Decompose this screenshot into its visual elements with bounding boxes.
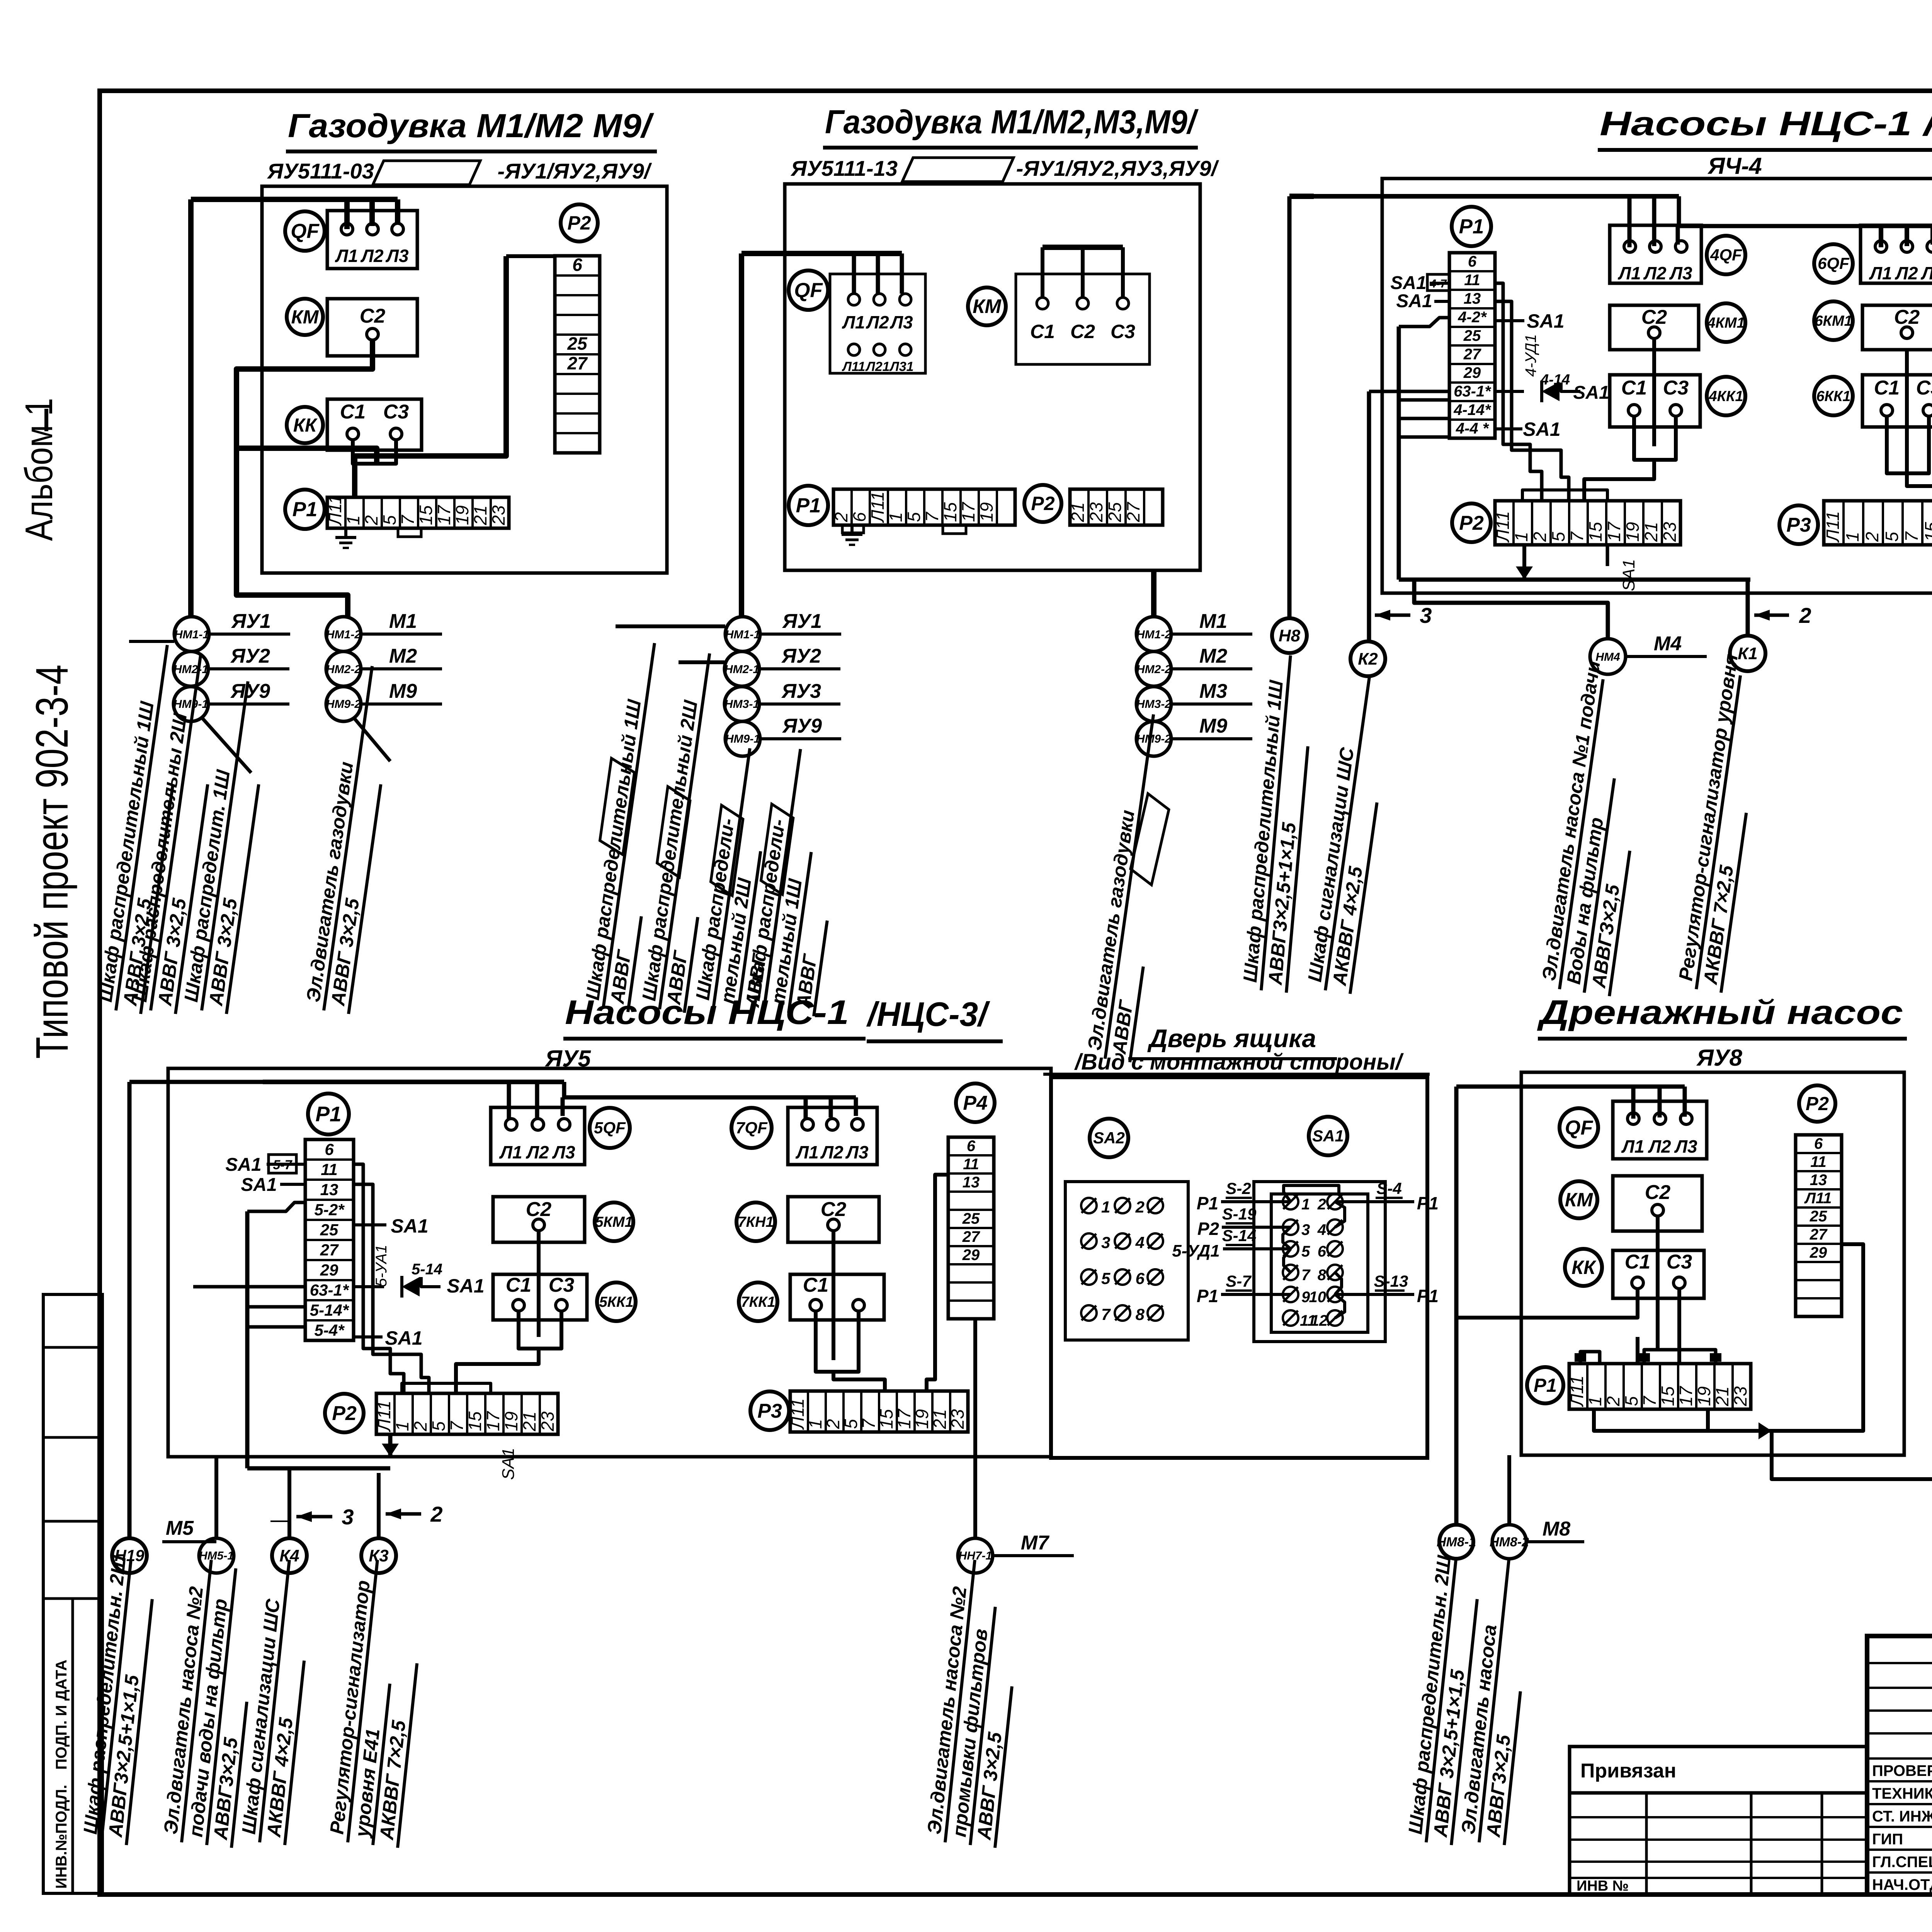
svg-text:6QF: 6QF <box>1818 254 1850 273</box>
svg-text:C2: C2 <box>526 1198 552 1221</box>
wire 7QF feed (E) <box>806 1097 856 1119</box>
svg-text:17: 17 <box>483 1411 503 1431</box>
svg-text:C2: C2 <box>1641 306 1667 328</box>
motor circle НМ9-2 (A) <box>326 680 442 721</box>
svg-text:Л3: Л3 <box>1669 263 1692 283</box>
relay Р2 circle (C) <box>1452 503 1491 542</box>
terminal strip Р1 (C) <box>1449 253 1495 438</box>
svg-text:Типовой проект 902-3-4: Типовой проект 902-3-4 <box>27 665 78 1059</box>
svg-text:НМ1-1: НМ1-1 <box>174 628 209 641</box>
svg-text:М5: М5 <box>166 1517 194 1539</box>
svg-text:НМ3-1: НМ3-1 <box>724 698 759 711</box>
svg-text:SA1: SA1 <box>225 1155 261 1175</box>
terminal strip Р1 (G) <box>1567 1364 1751 1409</box>
thermal relay КК (G) <box>1565 1249 1602 1286</box>
svg-text:Л11: Л11 <box>1567 1376 1587 1407</box>
wire Н8 drop <box>1289 196 1314 618</box>
motor circle НМ9-2 (B) <box>1136 715 1252 756</box>
svg-text:ЯУ8: ЯУ8 <box>1696 1045 1742 1071</box>
svg-text:Насосы НЦС-1: Насосы НЦС-1 <box>565 993 849 1031</box>
svg-text:C2: C2 <box>821 1198 847 1221</box>
svg-text:Л2: Л2 <box>820 1142 844 1162</box>
cable label Регулятор-сигнализатор уровня Е41 (К3) <box>325 1558 417 1848</box>
wire К1 drop (C) <box>1746 580 1750 636</box>
svg-text:ЯЧ-4: ЯЧ-4 <box>1707 153 1762 179</box>
svg-text:SA1: SA1 <box>447 1275 484 1297</box>
cabinet circle НМ1-1 (B) <box>725 610 841 651</box>
block G subtitle ЯУ8 <box>1696 1045 1742 1071</box>
wire C2 down (A) <box>236 340 372 617</box>
box ЯУ (block B) <box>785 184 1200 570</box>
svg-text:5: 5 <box>904 512 924 522</box>
svg-text:Л2: Л2 <box>360 246 384 266</box>
cable label Эл.двигатель насоса №1 подачи (НМ4) <box>1537 659 1630 996</box>
svg-text:5: 5 <box>1621 1396 1641 1406</box>
svg-text:Р1: Р1 <box>1197 1193 1218 1213</box>
svg-text:S-2: S-2 <box>1226 1179 1251 1197</box>
svg-text:1: 1 <box>1842 532 1862 542</box>
svg-text:1: 1 <box>1101 1198 1110 1216</box>
relay Р1 circle (B) <box>789 486 828 525</box>
svg-text:3: 3 <box>342 1505 354 1529</box>
door F title <box>1043 1024 1430 1075</box>
svg-text:НМ1-2: НМ1-2 <box>326 628 361 641</box>
svg-text:4-УД1: 4-УД1 <box>1522 334 1539 377</box>
relay Р2 circle (G) <box>1799 1085 1835 1122</box>
cable label Шкаф распределительн 2Ш (Н19) <box>78 1554 152 1845</box>
left bus (E) <box>247 1211 305 1468</box>
svg-text:Л1: Л1 <box>1869 263 1892 283</box>
svg-text:27: 27 <box>320 1241 339 1259</box>
box ЯУ8 <box>1521 1072 1904 1455</box>
wire into box left (B) <box>739 253 744 617</box>
svg-text:11: 11 <box>963 1156 979 1173</box>
svg-text:ГИП: ГИП <box>1872 1831 1903 1848</box>
svg-text:ЯУ9: ЯУ9 <box>782 715 822 737</box>
bottom bus (E) <box>247 1466 390 1471</box>
box ЯУ (block A) <box>262 186 667 573</box>
svg-text:C2: C2 <box>1894 306 1920 328</box>
svg-text:8: 8 <box>1136 1305 1145 1323</box>
svg-text:29: 29 <box>962 1247 980 1264</box>
terminal strip Р2 (C) <box>1493 501 1680 545</box>
SA1 wire 5-УД1 S-14 (F) <box>1172 1226 1291 1260</box>
cable label Эл.двигатель насоса №2 подачи (НМ5) <box>159 1558 247 1848</box>
label SA1 to 13 (C) <box>1396 291 1449 311</box>
svg-text:Р1: Р1 <box>1417 1286 1439 1306</box>
svg-text:SA1: SA1 <box>1390 273 1426 293</box>
wire Р1 strip to Р2 strip (A) <box>355 256 506 497</box>
diode 4-14 (C) <box>1495 372 1609 403</box>
svg-text:SA1: SA1 <box>385 1327 422 1349</box>
svg-text:Р1: Р1 <box>1459 215 1484 238</box>
svg-text:C1: C1 <box>803 1274 828 1296</box>
svg-text:ЯУ5111-03: ЯУ5111-03 <box>267 159 374 183</box>
svg-text:2: 2 <box>430 1502 442 1526</box>
wire Р4 to Р3 (E) <box>927 1175 948 1391</box>
svg-text:21: 21 <box>1712 1386 1732 1406</box>
svg-text:ЯУ1: ЯУ1 <box>782 610 822 633</box>
svg-text:12: 12 <box>1311 1312 1328 1329</box>
svg-text:С1: С1 <box>1030 321 1055 342</box>
svg-text:SA1: SA1 <box>1396 291 1432 311</box>
svg-text:ПОДП. И ДАТА: ПОДП. И ДАТА <box>53 1660 70 1770</box>
svg-text:Л2: Л2 <box>866 312 889 332</box>
svg-text:Дверь ящика: Дверь ящика <box>1147 1024 1316 1053</box>
label 4-УД1 rotated (C) <box>1522 334 1539 377</box>
svg-text:15: 15 <box>940 502 960 522</box>
QF terminals Л1Л2Л3 (G) <box>1613 1101 1707 1159</box>
svg-text:7: 7 <box>922 512 942 522</box>
svg-text:4QF: 4QF <box>1710 246 1742 264</box>
contactor coil C2 7КН1 <box>788 1197 879 1242</box>
contactor КМ (B) <box>968 287 1006 325</box>
svg-text:1: 1 <box>1585 1396 1605 1406</box>
svg-text:7: 7 <box>1901 531 1922 542</box>
SA1 wire Р2 S-19 (F) <box>1197 1205 1291 1239</box>
svg-text:Газодувка М1/М2,М3,М9/: Газодувка М1/М2,М3,М9/ <box>825 104 1199 141</box>
relay Р1 circle (C) <box>1452 207 1491 246</box>
svg-text:5-УД1: 5-УД1 <box>1172 1242 1220 1260</box>
terminal strip Р1 (B) <box>831 489 1015 525</box>
svg-text:29: 29 <box>1810 1244 1827 1261</box>
svg-text:7КК1: 7КК1 <box>741 1294 776 1310</box>
contactor coil C2 5КМ1 <box>493 1197 585 1242</box>
svg-text:29: 29 <box>1463 364 1481 381</box>
svg-text:SA1: SA1 <box>1312 1127 1344 1145</box>
wire QF feed (B) <box>742 253 902 294</box>
jumper over Р2 strip (E) <box>402 1383 491 1393</box>
relay Р2 circle (E) <box>325 1394 364 1432</box>
contactor 7КН1 <box>736 1202 775 1241</box>
block C title <box>1598 104 1932 150</box>
svg-text:QF: QF <box>1565 1117 1593 1139</box>
bracket under Р1 strip cell 7 (A) <box>398 528 421 537</box>
svg-text:4: 4 <box>1135 1233 1145 1252</box>
wire stub НМ1-1 (B) <box>616 624 725 628</box>
svg-text:КК: КК <box>293 415 318 436</box>
motor circle НМ2-2 (B) <box>1136 645 1252 686</box>
thermal contacts C1 7КК1 <box>790 1274 884 1320</box>
svg-text:1: 1 <box>1511 532 1531 542</box>
svg-text:НМ8-1: НМ8-1 <box>1437 1535 1476 1549</box>
motor circle НМ3-2 (B) <box>1136 680 1252 721</box>
М5 label line (E) <box>162 1517 216 1542</box>
switch SA2 circle (F) <box>1090 1119 1128 1157</box>
svg-text:ПРОВЕР.: ПРОВЕР. <box>1872 1762 1932 1779</box>
svg-text:13: 13 <box>1810 1172 1827 1189</box>
svg-text:Р1: Р1 <box>1534 1375 1557 1396</box>
cable tag parallelogram (B5) <box>1128 794 1172 885</box>
svg-text:25: 25 <box>1105 502 1125 522</box>
cable label Шкаф распределительный 1Ш (Н8) <box>1238 653 1308 993</box>
svg-text:Л3: Л3 <box>1920 263 1932 283</box>
svg-text:6: 6 <box>1136 1269 1145 1287</box>
svg-text:5-2*: 5-2* <box>314 1201 345 1219</box>
svg-text:Насосы НЦС-1 /НЦС-3/: Насосы НЦС-1 /НЦС-3/ <box>1600 104 1932 143</box>
sidebar text Альбом 1 <box>17 398 61 541</box>
svg-text:Л11: Л11 <box>374 1401 394 1432</box>
label SA1 right of 5-2 (E) <box>354 1215 429 1237</box>
wire НМ9-2 to label slant (A) <box>354 718 390 761</box>
svg-text:4КМ1: 4КМ1 <box>1707 315 1745 331</box>
wire to К9 (G) <box>1772 1431 1932 1479</box>
svg-text:Р1: Р1 <box>796 494 821 517</box>
svg-text:К2: К2 <box>1358 650 1378 668</box>
thermal relay 6КК1 <box>1814 377 1853 415</box>
relay Р1 circle (E) <box>308 1094 349 1134</box>
svg-text:КМ: КМ <box>291 307 319 328</box>
svg-text:Л11: Л11 <box>787 1398 808 1430</box>
svg-text:15: 15 <box>876 1409 896 1429</box>
relay circle К4 <box>272 1538 307 1573</box>
contactor coil C2 4КМ1 <box>1610 305 1699 350</box>
box ЯЧ-4 <box>1382 179 1932 593</box>
svg-text:ЯУ2: ЯУ2 <box>781 645 821 667</box>
wire C1C3 join (A) <box>236 440 396 464</box>
4QF terminals Л1Л2Л3 (C) <box>1610 225 1701 283</box>
cable label Эл.двигатель насоса (ЯУ8) <box>1456 1558 1520 1845</box>
svg-text:НМ8-2: НМ8-2 <box>1490 1535 1529 1549</box>
svg-text:-ЯУ1/ЯУ2,ЯУ9/: -ЯУ1/ЯУ2,ЯУ9/ <box>497 159 652 183</box>
svg-text:21: 21 <box>1068 502 1088 522</box>
svg-text:21: 21 <box>519 1412 539 1432</box>
svg-text:15: 15 <box>1585 522 1605 542</box>
svg-text:SA2: SA2 <box>1093 1129 1125 1147</box>
svg-text:4КК1: 4КК1 <box>1709 388 1743 405</box>
svg-text:Дренажный насос: Дренажный насос <box>1537 993 1903 1031</box>
svg-text:ИНВ №: ИНВ № <box>1577 1878 1629 1894</box>
svg-text:ЯУ9: ЯУ9 <box>230 680 270 702</box>
cable tag parallelogram (B4) <box>760 804 795 895</box>
svg-text:27: 27 <box>1123 502 1143 522</box>
switch SA2 contact box (F) <box>1065 1182 1188 1340</box>
cable tag parallelogram (B3) <box>709 805 745 896</box>
svg-text:C3: C3 <box>1916 377 1932 399</box>
svg-text:17: 17 <box>894 1408 914 1429</box>
svg-text:7QF: 7QF <box>736 1119 768 1137</box>
wire НН7-1 up (E) <box>973 1319 977 1538</box>
relay circle К1 <box>1730 636 1765 671</box>
cable label Шкаф распределительный 1Ш (B1) <box>581 640 655 1012</box>
svg-text:7: 7 <box>859 1418 879 1429</box>
cable tag parallelogram (B2) <box>656 787 692 877</box>
wire C1 C3 down (G) <box>1456 1289 1679 1364</box>
svg-text:2: 2 <box>1862 532 1882 542</box>
cable label Шкаф распредели-тельный 2Ш (B3) <box>691 745 777 1015</box>
svg-text:21: 21 <box>1641 522 1661 542</box>
wire drop to НМ1-1 (A) <box>188 199 194 617</box>
svg-text:63-1*: 63-1* <box>310 1281 349 1299</box>
svg-text:НМ9-1: НМ9-1 <box>725 733 760 745</box>
svg-text:М2: М2 <box>389 645 417 667</box>
wire stub НМ2-1 (B) <box>679 660 724 664</box>
svg-text:4-4 *: 4-4 * <box>1456 420 1490 437</box>
circuit breaker QF (B) <box>789 270 828 310</box>
QF terminals Л1Л2Л3 (A) <box>327 211 417 269</box>
cabinet circle Н19 <box>112 1538 147 1573</box>
block E title <box>563 993 1003 1041</box>
svg-text:4-7: 4-7 <box>1429 277 1447 290</box>
svg-text:3: 3 <box>1301 1221 1310 1238</box>
svg-text:5: 5 <box>1882 532 1902 542</box>
svg-text:Л11: Л11 <box>1493 511 1513 543</box>
svg-text:5: 5 <box>379 515 400 525</box>
svg-text:Л31: Л31 <box>889 359 913 374</box>
svg-text:Р3: Р3 <box>757 1400 782 1422</box>
svg-text:29: 29 <box>320 1261 338 1279</box>
svg-text:7: 7 <box>1567 531 1587 542</box>
svg-text:ЯУ3: ЯУ3 <box>781 680 821 702</box>
wire 6QF feed (C) <box>1881 226 1932 247</box>
label SA1 5-7 (E) <box>225 1155 305 1175</box>
svg-text:НМ9-2: НМ9-2 <box>1136 733 1171 745</box>
cable label Шкаф распределительный 2Ш (B2) <box>637 650 710 1013</box>
svg-text:Р1: Р1 <box>1417 1193 1439 1213</box>
svg-text:6КК1: 6КК1 <box>1816 388 1851 405</box>
ground symbol under Р1 strip (B) <box>842 525 864 545</box>
cabinet circle Н8 <box>1272 618 1307 653</box>
svg-text:Р3: Р3 <box>1786 514 1811 536</box>
circuit breaker QF (A) <box>285 211 325 251</box>
svg-text:Л11: Л11 <box>1804 1190 1832 1207</box>
cable label Эл.двигатель газодувки (A4) <box>301 663 381 1014</box>
wire Р2 cell7 down SA1 (C) <box>1606 545 1609 566</box>
thermal contacts C1 C3 (G) <box>1613 1250 1704 1298</box>
svg-text:19: 19 <box>1622 522 1643 542</box>
svg-text:C1: C1 <box>340 401 366 423</box>
svg-text:19: 19 <box>501 1412 521 1431</box>
wire box B to НМ1-2 col <box>1151 570 1156 617</box>
svg-text:27: 27 <box>1810 1226 1828 1243</box>
svg-text:C1: C1 <box>1621 377 1647 399</box>
svg-text:6КМ1: 6КМ1 <box>1815 313 1852 329</box>
label SA1 under Р2 strip (E) <box>499 1448 518 1480</box>
motor circle НМ1-2 (A) <box>326 610 442 651</box>
svg-text:C2: C2 <box>1645 1181 1671 1204</box>
thermal relay 4КК1 <box>1707 377 1745 415</box>
svg-text:НМ9-2: НМ9-2 <box>326 698 361 711</box>
relay Р1 circle (A) <box>285 490 325 529</box>
6QF terminals Л1Л2Л3 (C) <box>1861 225 1932 283</box>
svg-text:1: 1 <box>1301 1196 1310 1213</box>
svg-text:10: 10 <box>1309 1289 1327 1306</box>
svg-text:7: 7 <box>447 1421 467 1431</box>
svg-text:М8: М8 <box>1543 1518 1570 1540</box>
svg-text:13: 13 <box>963 1174 980 1191</box>
cable tag parallelogram (B1) <box>599 758 636 855</box>
cabinet circle НМ4 <box>1590 633 1707 674</box>
cable label Эл.двигатель насоса №2 промывки (НН7) <box>922 1558 1012 1848</box>
svg-text:27: 27 <box>1463 346 1481 363</box>
svg-text:S-14: S-14 <box>1222 1226 1257 1245</box>
wire 3 arrow (C) <box>1375 603 1432 628</box>
svg-text:Л21: Л21 <box>865 359 889 374</box>
wire QF feed (G) <box>1456 1087 1685 1119</box>
svg-text:11: 11 <box>1464 272 1480 289</box>
svg-text:4: 4 <box>1317 1221 1326 1238</box>
svg-text:Л2: Л2 <box>1895 263 1918 283</box>
svg-text:7КН1: 7КН1 <box>738 1214 774 1230</box>
svg-text:19: 19 <box>912 1409 932 1429</box>
svg-text:23: 23 <box>947 1409 968 1429</box>
jumper over Р2 strip (C) <box>1522 490 1607 501</box>
block A subtitle ЯУ5111-03 <box>267 159 374 183</box>
svg-text:2: 2 <box>1603 1396 1623 1406</box>
relay Р2 circle (A) <box>561 204 598 241</box>
svg-text:7: 7 <box>1301 1267 1311 1284</box>
svg-text:/Вид с монтажной стороны/: /Вид с монтажной стороны/ <box>1074 1049 1404 1075</box>
wire jog cell13 (E) <box>247 1202 305 1211</box>
cabinet circle НМ3-1 (B) <box>724 680 840 721</box>
svg-text:М2: М2 <box>1199 645 1227 667</box>
terminal strip Р1 (E) <box>305 1139 354 1340</box>
svg-text:SA1: SA1 <box>391 1215 428 1237</box>
label SA1 4-7 (C) <box>1390 273 1449 293</box>
svg-text:Р1: Р1 <box>315 1102 341 1126</box>
svg-text:23: 23 <box>488 505 509 526</box>
block B subtitle -ЯУ1/ЯУ2,ЯУ3,ЯУ9/ <box>1016 156 1219 180</box>
thermal relay 7КК1 <box>739 1282 777 1321</box>
cable label Шкаф распределительный 1Ш (A1) <box>94 642 173 1014</box>
svg-text:Р2: Р2 <box>1459 512 1484 534</box>
cable label Шкаф распределительн 2Ш (ЯУ8) <box>1403 1554 1477 1845</box>
svg-text:Р2: Р2 <box>1806 1094 1829 1114</box>
label SA1 to 5-4 (E) <box>354 1327 423 1349</box>
cable label Шкаф сигнализации ШС (К2) <box>1303 673 1377 994</box>
thermal contacts C1 C3 6КК1 <box>1862 375 1932 427</box>
svg-text:НМ1-1: НМ1-1 <box>725 628 760 641</box>
contactor КМ (A) <box>287 299 323 335</box>
svg-text:Л3: Л3 <box>552 1142 575 1162</box>
svg-text:М7: М7 <box>1021 1532 1049 1554</box>
cabinet circle НМ8-1 <box>1437 1525 1476 1559</box>
contactor coil C2 (A) <box>327 299 417 356</box>
block B subtitle ЯУ5111-13 <box>790 156 898 180</box>
svg-text:НМ2-1: НМ2-1 <box>724 663 759 676</box>
svg-text:27: 27 <box>567 353 588 373</box>
svg-text:КМ: КМ <box>1565 1189 1594 1211</box>
svg-text:Р2: Р2 <box>567 212 591 234</box>
svg-text:НМ9-1: НМ9-1 <box>173 698 208 711</box>
title block signature rows <box>1872 1759 1932 1893</box>
wire К3 up + 2 arrow (E) <box>379 1473 443 1538</box>
svg-text:8: 8 <box>1318 1267 1327 1284</box>
label 5-УА1 rotated (E) <box>373 1245 390 1287</box>
svg-text:Л1: Л1 <box>335 246 358 266</box>
svg-text:/НЦС-3/: /НЦС-3/ <box>866 995 990 1033</box>
block C subtitle ЯЧ-4 <box>1707 153 1762 179</box>
cabinet circle НМ5-1 (E) <box>199 1538 234 1573</box>
svg-text:23: 23 <box>1660 522 1680 542</box>
svg-text:6: 6 <box>325 1140 334 1158</box>
svg-text:Л11: Л11 <box>1823 511 1843 543</box>
circuit breaker 4QF <box>1707 236 1745 274</box>
svg-text:НМ2-1: НМ2-1 <box>173 663 208 676</box>
label SA1 right of 4-2 (C) <box>1495 310 1565 332</box>
svg-text:SA1: SA1 <box>1573 383 1609 403</box>
svg-text:SA1: SA1 <box>499 1448 518 1480</box>
svg-text:QF: QF <box>794 279 823 302</box>
wire Р2 bottom to box bottom (E) <box>382 1434 399 1457</box>
svg-text:2: 2 <box>410 1421 430 1432</box>
svg-text:19: 19 <box>452 505 472 525</box>
svg-text:6: 6 <box>1318 1243 1327 1260</box>
КМ terminal box (B) <box>1016 274 1150 364</box>
left margin table <box>43 1294 102 1893</box>
label SA1 to 4-4 (C) <box>1495 418 1561 440</box>
wire НМ9-1 to label slant (A) <box>202 718 251 773</box>
